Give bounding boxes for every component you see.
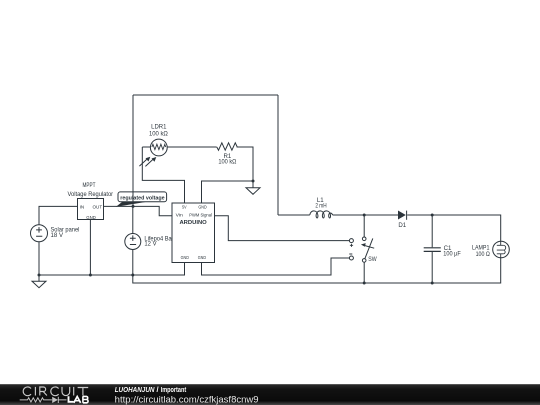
node flag: regulated voltage: [116, 192, 167, 207]
wire arduino GND top to ground node: [202, 181, 254, 203]
wire solar top to MPPT IN: [39, 206, 78, 224]
svg-text:100 kΩ: 100 kΩ: [218, 159, 236, 166]
ground symbol (main): [32, 275, 46, 288]
svg-text:100 kΩ: 100 kΩ: [149, 130, 168, 137]
svg-text:18 V: 18 V: [51, 232, 64, 239]
svg-text:GND: GND: [198, 255, 207, 260]
label R1: [218, 153, 236, 166]
battery V2 label Lifepo4 Battery (clipped by ARDUINO box): [144, 236, 183, 248]
ground symbol (near R1): [246, 181, 260, 194]
svg-text:PWM Signal: PWM Signal: [189, 212, 212, 217]
svg-text:MPPT: MPPT: [83, 182, 96, 189]
wire LDR left lead: [142, 146, 150, 148]
CircuitLab logo: LAB (bold stroked letters): [69, 396, 89, 403]
junction dots: [38, 180, 434, 285]
label LDR1: [149, 124, 168, 138]
svg-text:100 Ω: 100 Ω: [476, 251, 491, 258]
MPPT voltage regulator box U1: [78, 199, 104, 221]
wire switch top: [363, 215, 365, 237]
CircuitLab logo: resistor-diode glyph: [20, 397, 67, 403]
photoresistor LDR1: [139, 139, 167, 166]
svg-text:http://circuitlab.com/czfkjasf: http://circuitlab.com/czfkjasf8cnw9: [115, 395, 259, 405]
svg-text:12 V: 12 V: [144, 241, 157, 248]
svg-text:ARDUINO: ARDUINO: [179, 220, 207, 226]
svg-text:IN: IN: [80, 204, 85, 210]
svg-text:GND: GND: [181, 255, 190, 260]
svg-text:5V: 5V: [182, 205, 187, 210]
svg-text:GND: GND: [86, 215, 96, 221]
wire ground rail left segment: [39, 263, 185, 276]
ARDUINO box U2: [172, 203, 215, 263]
voltage source V2 Lifepo4 battery: [125, 234, 141, 250]
wire LDR right to R1: [167, 146, 217, 148]
svg-text:GND: GND: [198, 205, 207, 210]
wire right vertical down to L1: [277, 95, 279, 215]
resistor R1: [217, 143, 237, 150]
wire MPPT OUT to Vin: [104, 206, 173, 215]
svg-text:D1: D1: [398, 222, 406, 229]
wire C1 bottom: [431, 252, 433, 283]
wire battery bottom + bottom rail to lamp: [133, 250, 501, 284]
wire left vertical (regulated node up-and-over): [132, 95, 134, 206]
wire C1 top: [431, 215, 433, 247]
wire arduino right GND to switch minus terminal: [202, 258, 350, 275]
wire PWM to switch plus terminal: [215, 216, 350, 241]
voltage source V1 solar panel: [31, 225, 48, 242]
svg-text:Voltage Regulator: Voltage Regulator: [68, 191, 114, 198]
svg-text:OUT: OUT: [93, 204, 103, 210]
capacitor C1: [424, 248, 441, 252]
wire L1 row: [278, 214, 398, 216]
wire LDR left down to 5V pin: [142, 147, 184, 203]
CircuitLab logo: CIRCUIT (thin stroked letters): [23, 387, 88, 396]
svg-text:regulated voltage: regulated voltage: [120, 196, 164, 202]
switch SW (voltage controlled): [349, 237, 374, 262]
diode D1: [398, 211, 407, 220]
svg-text:Vin: Vin: [176, 212, 184, 217]
svg-text:100 µF: 100 µF: [443, 251, 461, 258]
inductor L1: [310, 211, 333, 218]
label MPPT Voltage Regulator: [68, 182, 114, 198]
label Solar panel: [51, 226, 80, 239]
wire R1 right + down to ground node: [237, 147, 253, 181]
svg-text:2 mH: 2 mH: [315, 203, 326, 210]
wire battery top: [132, 206, 134, 233]
label LAMP1: [472, 244, 490, 258]
wire solar bottom: [38, 242, 40, 275]
lamp LAMP1: [493, 241, 510, 258]
svg-text:LUOHANJUN / Important: LUOHANJUN / Important: [115, 385, 187, 394]
wire MPPT GND down: [89, 220, 91, 276]
wire diode to lamp top: [407, 215, 501, 241]
label C1: [443, 245, 461, 258]
wire top rail: [133, 94, 278, 96]
svg-text:SW: SW: [368, 256, 377, 263]
label L1: [315, 197, 326, 209]
wire switch bottom: [363, 262, 365, 283]
